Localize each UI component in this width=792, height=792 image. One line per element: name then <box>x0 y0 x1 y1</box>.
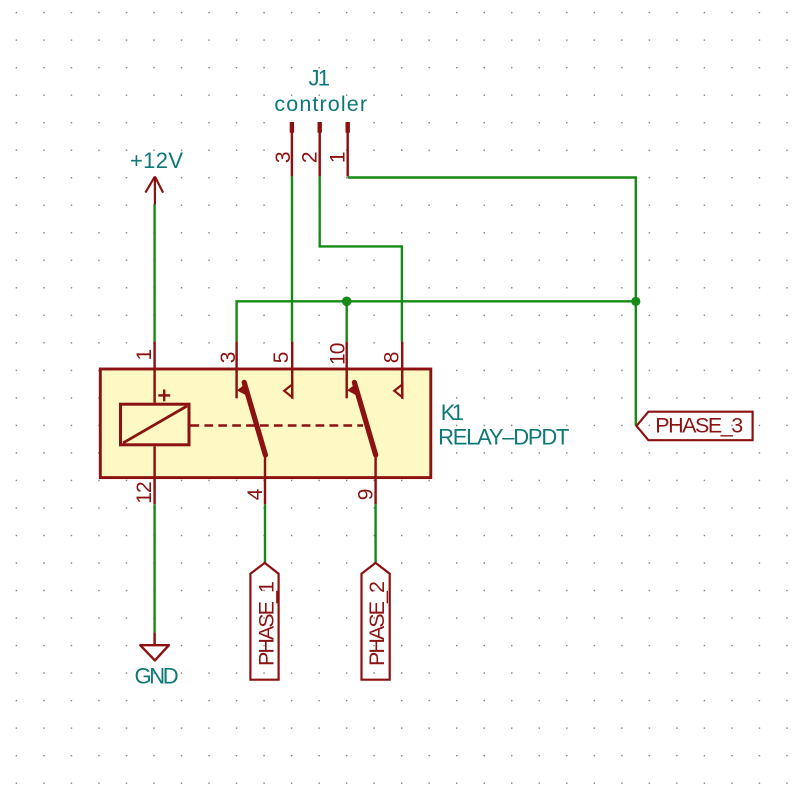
svg-text:4: 4 <box>244 488 267 500</box>
J1 pin 1 <box>346 122 350 133</box>
relay pin 5 <box>291 342 293 399</box>
wire J1.2 to relay pin 8 <box>320 176 402 341</box>
relay pin 4 <box>264 455 266 504</box>
relay contact dashed link line <box>191 424 364 427</box>
wire +12V to relay pin 1 <box>153 205 155 342</box>
relay pin 12 <box>153 446 155 504</box>
relay switch 2 arm <box>354 382 375 455</box>
svg-text:3: 3 <box>272 151 295 163</box>
wire relay pin 12 to GND <box>153 504 155 632</box>
relay coil rectangle <box>121 404 190 445</box>
relay coil diagonal <box>123 406 187 443</box>
svg-text:8: 8 <box>380 352 403 364</box>
relay pin 10 <box>345 342 347 399</box>
svg-text:1: 1 <box>326 151 349 163</box>
relay switch 2 arrowhead <box>347 383 358 396</box>
ground symbol triangle <box>140 645 169 660</box>
power symbol +12V arrow <box>145 177 163 205</box>
svg-text:1: 1 <box>133 349 156 361</box>
svg-text:RELAY–DPDT: RELAY–DPDT <box>438 425 569 450</box>
svg-text:2: 2 <box>299 151 322 163</box>
relay coil plus sign <box>158 390 170 402</box>
relay pin 5 contact triangle <box>284 384 292 397</box>
junction A <box>342 297 352 307</box>
wire relay pin 4 to PHASE_1 <box>264 504 266 563</box>
relay pin 9 <box>374 455 376 504</box>
svg-text:GND: GND <box>135 663 179 688</box>
svg-text:3: 3 <box>217 352 240 364</box>
relay K1 body <box>100 369 431 478</box>
relay pin 8 contact triangle <box>394 384 402 397</box>
svg-text:5: 5 <box>270 352 293 364</box>
J1 pin 2 <box>318 122 322 133</box>
global label PHASE_1 outline <box>250 563 278 680</box>
wire J1.3 to relay pin 5 <box>291 176 293 341</box>
global label PHASE_3 outline <box>637 412 753 441</box>
J1 pin 3 <box>290 122 294 133</box>
relay pin 8 <box>401 342 403 399</box>
ground symbol stub <box>153 633 155 646</box>
wire junction down to relay pin 10 <box>346 301 348 341</box>
svg-text:10: 10 <box>326 343 349 366</box>
svg-text:J1: J1 <box>309 65 331 90</box>
svg-text:controler: controler <box>274 92 367 116</box>
svg-text:K1: K1 <box>441 400 464 425</box>
wire J1.1 to PHASE_3 <box>348 178 636 426</box>
svg-text:9: 9 <box>355 489 378 501</box>
junction B <box>631 297 640 306</box>
wire relay pin 3 up and across to junction <box>237 301 636 341</box>
relay pin 1 <box>153 342 155 403</box>
svg-text:PHASE_3: PHASE_3 <box>655 413 743 437</box>
relay pin 3 <box>235 342 237 399</box>
svg-text:12: 12 <box>133 481 156 504</box>
svg-text:PHASE_2: PHASE_2 <box>365 581 389 666</box>
svg-text:+12V: +12V <box>130 148 183 173</box>
relay switch 1 arrowhead <box>237 383 248 396</box>
wire relay pin 9 to PHASE_2 <box>374 504 376 563</box>
svg-text:PHASE_1: PHASE_1 <box>254 581 278 666</box>
global label PHASE_2 outline <box>362 563 390 680</box>
relay switch 1 arm <box>244 382 265 455</box>
